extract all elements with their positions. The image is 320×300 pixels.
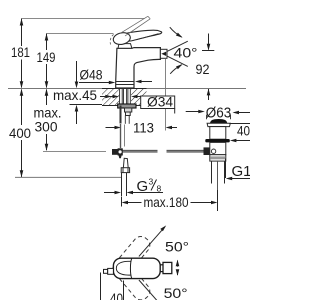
supply pipe stub above break	[124, 116, 126, 124]
deck reference line	[8, 88, 246, 90]
svg-text:50°: 50°	[165, 238, 189, 254]
dimension chain 149 / max.300 at x=46.5	[46, 34, 48, 151]
lever knob + arm	[123, 30, 161, 41]
neck and square tip	[160, 264, 163, 266]
pivot hole on drain body	[211, 149, 215, 153]
base ring lines	[116, 81, 134, 83]
Ø63 dimension	[186, 111, 200, 113]
svg-text:Ø48: Ø48	[80, 67, 103, 83]
svg-text:400: 400	[9, 125, 31, 141]
svg-text:G1: G1	[232, 163, 251, 180]
connector bits left	[104, 269, 108, 273]
svg-text:max.180: max.180	[144, 194, 189, 210]
pop-up rod horizontal (with length-break)	[123, 150, 158, 152]
G3/8 fitting on supply pipe	[121, 158, 129, 172]
drain nut	[210, 155, 226, 161]
reference line lever rest height (149)	[47, 33, 114, 35]
svg-text:149: 149	[37, 49, 56, 65]
svg-text:40: 40	[110, 290, 123, 300]
shank below deck	[120, 89, 131, 104]
solid handle top view	[113, 258, 160, 278]
aerator at spout end	[160, 49, 167, 58]
angle arc stems right	[177, 261, 179, 267]
svg-text:Ø63: Ø63	[206, 105, 232, 121]
faucet body	[116, 48, 161, 88]
Ø34 arrows	[104, 96, 114, 98]
dashed raised knob arc	[110, 34, 113, 44]
pop-up rod upper dark segment	[120, 106, 122, 124]
deck slab hatched	[102, 89, 147, 106]
max.300 end line at pop-up rod level	[43, 151, 106, 153]
drain dome plug	[210, 119, 227, 123]
G3/8 leader pinch	[104, 192, 116, 194]
bottom 40 dim (clipped at page edge)	[100, 273, 102, 300]
G1 1/4 label	[225, 159, 227, 179]
dimension chain 181 / 400 at x=21.5	[21, 19, 23, 177]
svg-text:3: 3	[149, 177, 154, 187]
svg-text:113: 113	[133, 119, 154, 135]
dimension 92	[208, 34, 210, 50]
seal ring	[205, 139, 230, 142]
dimension max.45 (deck thickness)	[70, 61, 109, 124]
vertical rod to faucet	[120, 124, 122, 148]
svg-text:92: 92	[196, 61, 210, 77]
40 deg aerator annotation	[167, 41, 188, 51]
svg-text:300: 300	[35, 119, 58, 135]
lever cap	[118, 44, 132, 49]
dimension 113	[106, 127, 119, 129]
extension line from spout outlet down	[165, 59, 167, 131]
raised lever thin lines	[120, 16, 148, 33]
svg-text:40°: 40°	[174, 45, 198, 61]
bottom reference line (supply connection level)	[15, 176, 122, 178]
Ø34 label box	[141, 96, 175, 109]
drain body lower	[210, 142, 226, 154]
50 deg legs	[139, 227, 165, 257]
svg-text:181: 181	[11, 44, 30, 60]
drain body upper	[210, 127, 226, 140]
mounting nut	[118, 104, 136, 108]
extension from rod down to clamp	[124, 125, 126, 147]
tailpipe	[211, 161, 213, 183]
svg-text:Ø34: Ø34	[147, 94, 173, 110]
svg-text:max.45: max.45	[53, 87, 97, 103]
rod clamp	[112, 149, 118, 155]
drain flange rim	[207, 123, 230, 126]
svg-text:50°: 50°	[164, 285, 188, 300]
svg-text:40: 40	[237, 123, 250, 139]
reference line top (max height raised lever, 181)	[22, 18, 145, 20]
dashed lever -50	[110, 256, 153, 300]
dimension 40 (drain deck thickness)	[229, 123, 250, 125]
dimension max.180	[121, 197, 123, 207]
dashed lever +50	[110, 233, 153, 280]
supply pipe lower	[121, 173, 123, 196]
drain rod knob	[204, 147, 211, 155]
